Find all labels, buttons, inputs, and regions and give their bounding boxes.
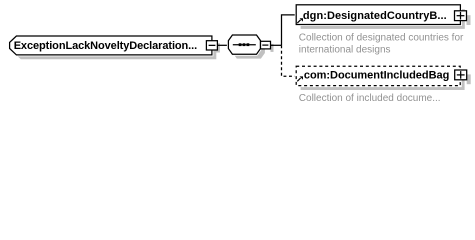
root element box ExceptionLackNoveltyDeclaration: [10, 36, 212, 55]
reference arrow icon in dgn element: [297, 18, 303, 23]
sequence group octagon: [228, 35, 260, 54]
element com:DocumentIncludedBag box (optional, dashed): [296, 66, 460, 85]
collapse box (minus) on sequence: [261, 41, 274, 52]
sequence group shadow: [233, 39, 265, 58]
svg-text:com:DocumentIncludedBag: com:DocumentIncludedBag: [304, 70, 449, 82]
expand box (plus) on dgn element: [455, 11, 471, 25]
expand box (plus) on com element: [455, 70, 471, 84]
element com:DocumentIncludedBag shadow: [301, 71, 465, 90]
collapse box (minus) on root element: [206, 41, 220, 53]
root element box ExceptionLackNoveltyDeclaration shadow: [14, 40, 216, 59]
wire from root collapse box to sequence: [217, 44, 228, 46]
svg-text:Collection of designated count: Collection of designated countries for: [299, 33, 464, 44]
svg-text:international designs: international designs: [299, 45, 391, 56]
svg-text:ExceptionLackNoveltyDeclaratio: ExceptionLackNoveltyDeclaration...: [14, 40, 197, 52]
wire from sequence to branch trunk: [271, 44, 282, 46]
element dgn:DesignatedCountryBag shadow: [301, 9, 465, 29]
wire trunk vertical solid (up to dgn child): [282, 15, 297, 45]
reference arrow icon in com element: [297, 76, 303, 81]
svg-text:dgn:DesignatedCountryB...: dgn:DesignatedCountryB...: [303, 10, 447, 22]
annotation text for dgn element: [299, 33, 464, 56]
wire trunk vertical dashed (down to optional com child): [282, 45, 297, 76]
element dgn:DesignatedCountryBag box: [296, 5, 460, 25]
svg-text:Collection of included docume.: Collection of included docume...: [299, 93, 441, 104]
